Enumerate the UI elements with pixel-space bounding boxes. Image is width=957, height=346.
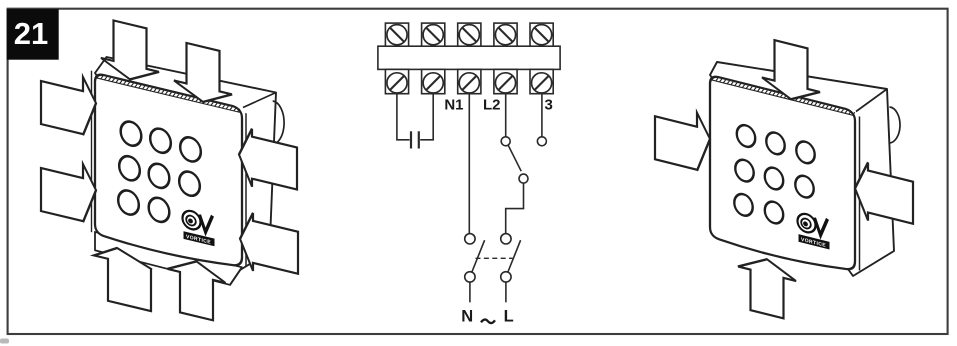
svg-text:L: L xyxy=(504,307,514,325)
Vortice logo: V letter xyxy=(200,213,213,234)
terminal tab bottom 3 xyxy=(458,69,481,93)
svg-text:L2: L2 xyxy=(483,97,501,114)
screw terminal bottom 1 xyxy=(387,73,407,93)
grille hole 5 xyxy=(149,162,170,191)
left unit box side bulge xyxy=(271,101,284,145)
screw terminal top 5 xyxy=(532,25,552,45)
wire to mains L xyxy=(505,282,507,302)
grille hole 3 xyxy=(796,139,814,165)
grille hole 2 xyxy=(150,126,171,155)
right unit intake arrow: bottom (up) xyxy=(738,252,796,322)
wire from selector to main switch xyxy=(506,183,524,234)
left unit intake arrow: bottom-left (up) xyxy=(94,242,152,311)
main switch pole N: lower contact xyxy=(465,272,475,282)
Vortice logo: name bar xyxy=(799,234,830,249)
screw terminal bottom 2 xyxy=(423,73,443,93)
main switch pole N: upper contact xyxy=(465,234,475,244)
terminal tab top 2 xyxy=(422,23,445,46)
right unit intake arrow: top (down) xyxy=(762,37,820,107)
svg-text:3: 3 xyxy=(545,97,553,114)
grille hole 7 xyxy=(734,192,752,218)
screw terminal top 1 xyxy=(387,25,407,45)
right unit top bevel hatch band xyxy=(711,80,855,116)
terminal tab top 4 xyxy=(494,23,517,46)
grille hole 6 xyxy=(795,174,813,200)
selector lower contact node xyxy=(519,174,528,183)
main switch pole L: lower contact xyxy=(501,272,511,282)
terminal block body xyxy=(378,46,560,69)
screw terminal bottom 5 xyxy=(532,73,552,93)
wire N1 down to switch contact xyxy=(468,94,470,234)
right fan unit xyxy=(655,10,913,346)
left unit intake arrow: left-upper (right) xyxy=(41,67,96,138)
grille hole 4 xyxy=(119,154,140,183)
terminal tab bottom 5 xyxy=(530,69,553,93)
grille hole 1 xyxy=(737,123,755,149)
screw terminal top 2 xyxy=(423,25,443,45)
Vortice logo: spiral emblem xyxy=(183,209,215,247)
capacitor C xyxy=(410,131,412,148)
screw terminal bottom 4 xyxy=(495,73,515,93)
terminal tab top 3 xyxy=(458,23,481,46)
svg-text:N: N xyxy=(461,307,473,325)
left unit intake arrow: top-right (down) xyxy=(174,40,232,109)
grille hole 3 xyxy=(180,135,201,164)
wire terminal 3 stub xyxy=(541,94,543,137)
Vortice logo: name bar xyxy=(184,231,215,246)
left unit intake arrow: right-upper (left) xyxy=(239,126,297,198)
left fan unit xyxy=(41,3,298,346)
left unit intake arrow: right-lower (left) xyxy=(240,210,298,282)
AC tilde symbol xyxy=(481,320,495,324)
left unit panel right edge second line xyxy=(245,113,247,266)
grille hole 6 xyxy=(179,169,200,198)
left unit intake arrow: bottom-right (up) xyxy=(168,254,226,323)
page artifact bottom-left xyxy=(0,339,9,344)
left unit intake arrow: top-left (down) xyxy=(101,17,159,86)
right unit box top-right depth edge xyxy=(856,89,887,112)
grille hole 7 xyxy=(118,188,139,217)
grille hole 2 xyxy=(766,130,784,156)
wire to mains N xyxy=(469,282,471,302)
left unit box top-right depth edge xyxy=(243,93,276,108)
wire from terminal 2 to capacitor xyxy=(420,94,433,140)
terminal tab bottom 2 xyxy=(422,69,445,93)
main switch pole L: upper contact xyxy=(501,234,511,244)
svg-text:N1: N1 xyxy=(444,97,463,114)
grille hole 8 xyxy=(149,196,170,225)
terminal tab top 1 xyxy=(385,23,408,46)
main switch pole L: blade xyxy=(508,240,521,272)
right unit panel right edge second line xyxy=(859,116,861,270)
grille hole 4 xyxy=(735,158,753,184)
terminal tab top 5 xyxy=(530,23,553,46)
selector contact node (L2) xyxy=(501,137,510,146)
left unit left edge double line xyxy=(91,71,93,233)
screw terminal top 4 xyxy=(495,25,515,45)
svg-text:21: 21 xyxy=(14,16,48,51)
wire from terminal 1 to capacitor xyxy=(397,94,410,140)
left unit front panel xyxy=(95,73,242,272)
right unit intake arrow: right (left) xyxy=(855,159,913,232)
wire L2 down to selector contact xyxy=(505,94,507,137)
Vortice logo: spiral emblem xyxy=(798,211,830,249)
wiring diagram xyxy=(378,23,560,302)
left unit intake arrow: left-lower (right) xyxy=(41,154,96,225)
left unit mounting box (top and side faces) xyxy=(95,57,276,273)
grille hole 1 xyxy=(121,119,142,148)
open contact node (terminal 3) xyxy=(537,137,546,146)
terminal tab bottom 1 xyxy=(385,69,408,93)
Vortice logo: V letter xyxy=(815,216,828,237)
right unit front panel xyxy=(710,75,855,276)
screw terminal top 3 xyxy=(459,25,479,45)
main switch pole N: blade xyxy=(472,240,485,272)
switch coupling dashed link xyxy=(476,257,513,259)
right unit intake arrow: left (right) xyxy=(655,102,710,174)
right unit mounting box (top and side faces) xyxy=(710,62,894,276)
screw terminal bottom 3 xyxy=(459,73,479,93)
left unit bottom base band xyxy=(95,232,242,288)
left unit top bevel hatch band xyxy=(96,78,242,113)
grille hole 8 xyxy=(765,200,783,226)
grille hole 5 xyxy=(765,166,783,192)
right unit box side bulge xyxy=(889,107,901,143)
terminal tab bottom 4 xyxy=(494,69,517,93)
figure number box xyxy=(7,9,59,60)
selector switch blade xyxy=(508,145,521,171)
